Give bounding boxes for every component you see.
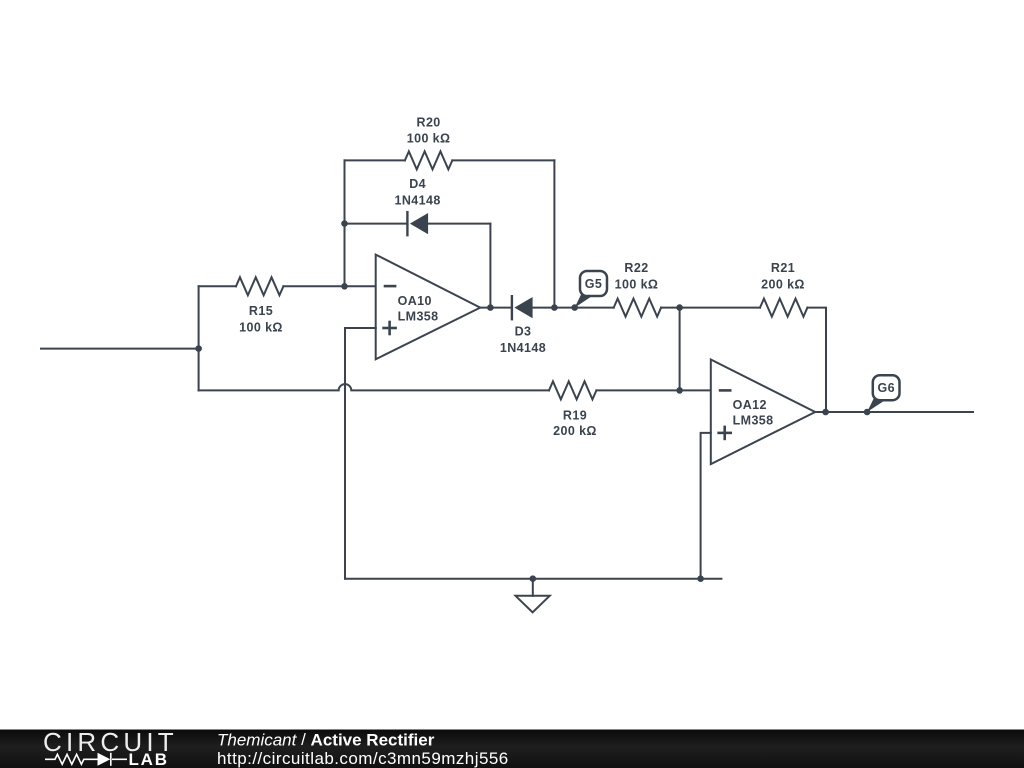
op-amp OA10 minus symbol [384, 285, 397, 288]
node: junction at D4 anode level [341, 220, 348, 227]
CircuitLab logo: resistor-diode doodle [45, 753, 127, 766]
wire: OA10 output to D3 [480, 307, 512, 309]
resistor R22 [614, 299, 661, 317]
resistor R21 [760, 299, 807, 317]
wire: OA10 non-inverting lead [345, 328, 376, 579]
wire: input horizontal [41, 348, 199, 350]
wire: R20 left lead [345, 159, 405, 161]
svg-text:100 kΩ: 100 kΩ [239, 320, 283, 334]
svg-text:Themicant / Active Rectifier: Themicant / Active Rectifier [217, 730, 435, 749]
flag G6 box [873, 375, 900, 400]
ground symbol [516, 579, 550, 613]
svg-text:100 kΩ: 100 kΩ [407, 132, 451, 146]
footer bar [0, 730, 1024, 768]
wire: bottom feedback run at y=390 with hop over vertical wire [199, 384, 549, 390]
svg-text:1N4148: 1N4148 [500, 341, 546, 355]
wire: vertical riser to OA12 inverting input [679, 308, 681, 391]
svg-text:100 kΩ: 100 kΩ [615, 278, 659, 292]
wire: R22 to R21 [661, 307, 760, 309]
resistor R20 [405, 151, 452, 169]
wire: R19 right lead to OA12 inverting input [596, 389, 710, 391]
node: junction to OA12 inverting riser [676, 304, 683, 311]
wire: ground rail [345, 578, 721, 580]
node: input junction [195, 345, 202, 352]
svg-text:LM358: LM358 [398, 310, 439, 324]
svg-text:R20: R20 [417, 115, 441, 129]
node: junction ground stem on rail [530, 575, 537, 582]
node: junction of riser and R19 wire [676, 387, 683, 394]
diode D4 triangle [410, 213, 428, 234]
svg-text:200 kΩ: 200 kΩ [761, 278, 805, 292]
wire: R15 left lead [199, 285, 236, 287]
svg-text:G6: G6 [877, 381, 894, 395]
wire: vertical inverting-node riser (R15/D4/R20 node) [344, 160, 346, 286]
op-amp OA12 minus symbol [719, 389, 732, 392]
svg-text:1N4148: 1N4148 [395, 193, 441, 207]
wire: OA12 non-inverting lead down to ground rail [701, 433, 711, 579]
wire: D4 left lead [345, 223, 408, 225]
node: junction for flag G5 [571, 304, 578, 311]
svg-text:LAB: LAB [129, 750, 169, 768]
svg-text:R19: R19 [563, 409, 587, 423]
svg-text:200 kΩ: 200 kΩ [553, 424, 597, 438]
flag G5 pointer tail [575, 294, 593, 308]
node: junction at OA10 output [487, 304, 494, 311]
flag G6 pointer tail [867, 398, 885, 412]
diode D3 triangle [514, 297, 532, 318]
wire: D4 right lead [428, 223, 490, 225]
op-amp OA10 body [376, 255, 481, 360]
resistor R19 [549, 381, 596, 399]
wire: D3 anode to R22 [533, 307, 614, 309]
diode D3 cathode bar [511, 296, 513, 319]
wire: R20 right lead [452, 159, 554, 161]
CircuitLab logo: diode triangle [98, 753, 111, 766]
wire: vertical from R20 right end down to output net [553, 160, 555, 307]
svg-text:R22: R22 [624, 261, 648, 275]
op-amp OA10 plus symbol [382, 321, 397, 336]
wire: left vertical from R15 level down to bottom feedback wire [198, 286, 200, 390]
svg-text:R21: R21 [771, 261, 795, 275]
wire: R15 right lead to op-amp inverting input [283, 285, 375, 287]
svg-text:G5: G5 [585, 277, 602, 291]
svg-text:OA12: OA12 [733, 398, 767, 412]
node: junction with R20 feedback riser [551, 304, 558, 311]
op-amp OA12 body [711, 360, 815, 465]
wire: OA12 output [815, 411, 973, 413]
svg-text:D4: D4 [409, 177, 426, 191]
op-amp OA12 plus symbol [717, 426, 732, 441]
svg-text:D3: D3 [515, 325, 532, 339]
resistor R15 [236, 277, 283, 295]
wire: R21 right lead and drop to OA12 output [807, 308, 826, 412]
wire: vertical from D4 right end down to op-amp output [489, 224, 491, 308]
node: junction at OA12 output with R21 drop [822, 409, 829, 416]
node: junction at inverting input [341, 283, 348, 290]
diode D4 cathode bar [406, 212, 408, 235]
node: junction OA12 plus lead on rail [697, 575, 704, 582]
svg-text:OA10: OA10 [398, 294, 432, 308]
svg-text:R15: R15 [249, 304, 273, 318]
svg-text:http://circuitlab.com/c3mn59mz: http://circuitlab.com/c3mn59mzhj556 [217, 749, 509, 768]
node: junction for flag G6 [864, 409, 871, 416]
flag G5 box [580, 271, 607, 296]
svg-text:LM358: LM358 [733, 413, 774, 427]
